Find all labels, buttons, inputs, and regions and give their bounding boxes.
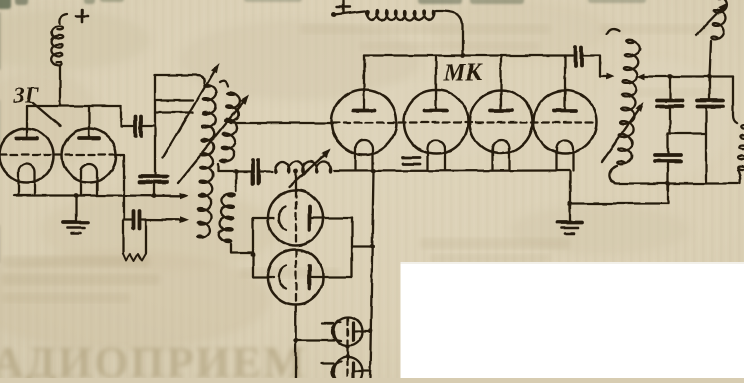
svg-text:АДИОПРИЕМ: АДИОПРИЕМ: [0, 338, 307, 378]
svg-text:МК: МК: [443, 60, 483, 86]
